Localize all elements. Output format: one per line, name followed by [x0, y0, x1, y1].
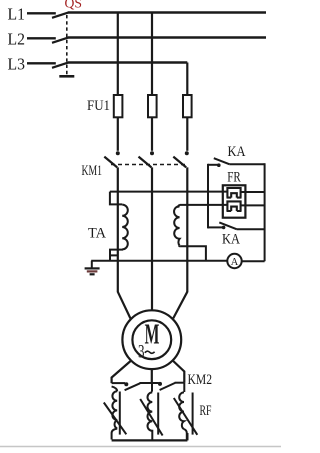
label 3 phase [138, 342, 155, 363]
rheostat RF element 3 [174, 383, 198, 440]
svg-text:A: A [231, 256, 239, 268]
wire fuse B to KM1 [151, 117, 153, 151]
wire L1 right [68, 11, 266, 13]
svg-text:M: M [145, 318, 160, 350]
wire FR heater 1 to branch [241, 191, 265, 193]
wire FR heater 2 to branch [241, 204, 265, 206]
wire ground bus [91, 260, 227, 262]
wire KM2 chain A-B [140, 382, 159, 384]
svg-text:QS: QS [65, 0, 83, 11]
contact KA 1 [208, 158, 265, 167]
svg-text:L3: L3 [8, 55, 26, 74]
wire KM2 chain B-C [175, 382, 185, 384]
wire motor feed right [173, 292, 187, 319]
KM1 linkage [111, 164, 185, 166]
ground [85, 261, 100, 275]
wire L2 left [27, 37, 56, 39]
svg-text:RF: RF [200, 403, 212, 419]
wire KA branch right [264, 163, 266, 261]
contactor KM2 contact A [112, 382, 140, 390]
wire TA secondary 1 [110, 191, 227, 193]
fuse FU1 phase C [183, 95, 192, 117]
wire rotor star bus [112, 439, 188, 441]
wire phase B drop [151, 13, 153, 95]
current transformer TA winding 2 [174, 205, 206, 261]
ammeter A [227, 254, 264, 268]
wire motor feed left [118, 292, 131, 319]
wire fuse C to KM1 [186, 117, 188, 151]
relay FR box [223, 185, 246, 217]
wire L2 right [68, 36, 266, 38]
fuse FU1 phase A [114, 95, 123, 117]
contactor KM1 contact C [173, 151, 189, 167]
contact KA 2 [208, 222, 265, 229]
svg-text:L1: L1 [8, 5, 26, 24]
wire phase C middle [186, 167, 188, 292]
rheostat RF element 2 [140, 383, 162, 440]
svg-text:KA: KA [222, 231, 240, 247]
current transformer TA winding 1 [110, 192, 128, 261]
wire L3 right [68, 61, 188, 63]
svg-text:3: 3 [138, 342, 145, 363]
wire phase A drop [117, 13, 119, 95]
fuse FU1 phase B [148, 95, 157, 117]
wire KA branch left [207, 164, 209, 229]
FR heater 1 [227, 188, 242, 198]
wire rotor left [112, 361, 131, 383]
svg-text:KA: KA [228, 144, 246, 160]
FR heater 2 [227, 201, 242, 211]
wire fuse A to KM1 [117, 117, 119, 151]
contactor KM1 contact A [104, 151, 120, 167]
wire TA secondary 2 [180, 204, 227, 206]
contactor KM1 contact B [139, 151, 155, 167]
svg-text:L2: L2 [8, 30, 26, 49]
svg-text:TA: TA [88, 226, 106, 242]
rheostat RF element 1 [104, 386, 127, 439]
svg-text:KM1: KM1 [82, 163, 103, 179]
wire rotor right [173, 361, 184, 383]
wire L1 left [27, 12, 56, 14]
switch QS [52, 13, 74, 77]
svg-text:FR: FR [227, 170, 241, 186]
wire rotor middle [151, 369, 153, 383]
motor M [122, 310, 181, 369]
wire phase C drop [186, 63, 188, 96]
svg-text:FU1: FU1 [87, 98, 110, 114]
wire L3 left [27, 62, 56, 64]
contactor KM2 contact B [158, 382, 175, 390]
wire phase A middle [117, 167, 119, 292]
wire star right stem [186, 433, 188, 440]
wire phase B middle [151, 167, 153, 309]
svg-text:KM2: KM2 [188, 372, 213, 388]
